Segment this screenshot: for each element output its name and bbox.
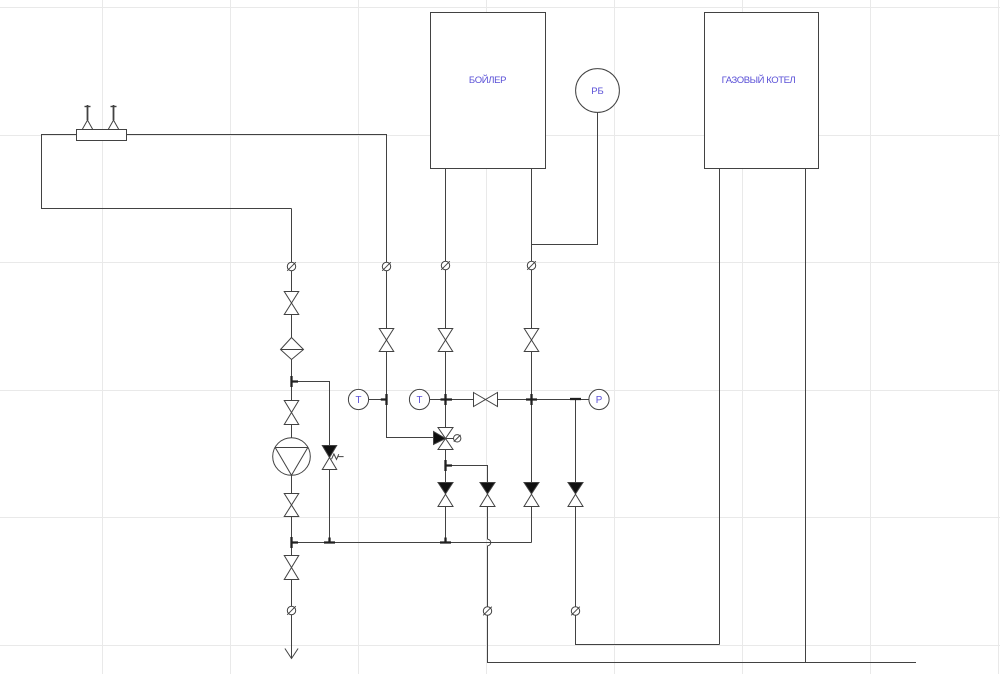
- wire: [127, 135, 434, 438]
- pump P1: [273, 438, 311, 476]
- drain cock D3: [441, 261, 450, 270]
- expansion tank RB circle: [576, 69, 620, 113]
- junction tick: [324, 538, 335, 543]
- drain cock D2: [382, 262, 391, 271]
- wire: [488, 546, 917, 663]
- check valve CV4: [568, 483, 583, 507]
- wire: [805, 169, 807, 663]
- valve V3: [284, 494, 299, 517]
- filter F1: [281, 338, 304, 360]
- wire: [291, 209, 293, 659]
- wire: [42, 135, 292, 209]
- gas boiler box: [705, 13, 819, 169]
- drain cock D6: [483, 607, 492, 616]
- drain cock D1: [287, 262, 296, 271]
- wire: [531, 169, 533, 543]
- thermometer T2: [409, 389, 429, 409]
- drain arrow: [285, 649, 298, 659]
- drain cock D5: [287, 606, 296, 615]
- junction tick: [446, 460, 453, 471]
- wire hop: [488, 539, 491, 546]
- valve V4: [284, 556, 299, 580]
- wire: [292, 542, 532, 544]
- drain cock D4: [527, 261, 536, 270]
- air vent 1: [82, 105, 93, 130]
- check valve CV2: [480, 483, 495, 507]
- valve V2: [284, 401, 299, 425]
- wire: [576, 400, 720, 645]
- svg-text:БОЙЛЕР: БОЙЛЕР: [469, 74, 506, 86]
- boiler box: [431, 13, 546, 169]
- svg-text:ГАЗОВЫЙ КОТЕЛ: ГАЗОВЫЙ КОТЕЛ: [722, 74, 796, 86]
- three-way valve TV1: [434, 428, 461, 450]
- thermometer T1: [348, 389, 368, 409]
- wire: [430, 399, 446, 401]
- svg-text:Т: Т: [356, 395, 362, 406]
- valve V5: [379, 329, 394, 352]
- gate valve V8 horizontal: [474, 393, 498, 407]
- junction tick: [292, 376, 299, 387]
- check valve CV3: [524, 483, 539, 507]
- junction tick: [381, 394, 387, 405]
- manometer P1: [589, 389, 609, 409]
- wire: [719, 169, 721, 645]
- safety valve SV1: [322, 446, 343, 470]
- junction tick: [440, 538, 451, 543]
- svg-text:Т: Т: [417, 395, 423, 406]
- junction tick: [526, 394, 537, 405]
- wire: [369, 399, 387, 401]
- wire: [445, 169, 447, 543]
- wire: [446, 399, 590, 401]
- valve V1: [284, 292, 299, 315]
- wire: [532, 113, 598, 245]
- junction tick: [292, 537, 299, 548]
- junction tick: [570, 398, 581, 400]
- air vent 2: [108, 105, 119, 130]
- manifold: [77, 130, 127, 141]
- svg-text:РБ: РБ: [591, 86, 604, 97]
- wire: [292, 382, 330, 543]
- valve V6: [438, 329, 453, 352]
- drain cock D7: [571, 607, 580, 616]
- check valve CV1: [438, 483, 453, 507]
- wire: [446, 466, 488, 540]
- junction tick: [441, 394, 453, 405]
- valve V7: [524, 329, 539, 352]
- svg-text:Р: Р: [596, 395, 603, 406]
